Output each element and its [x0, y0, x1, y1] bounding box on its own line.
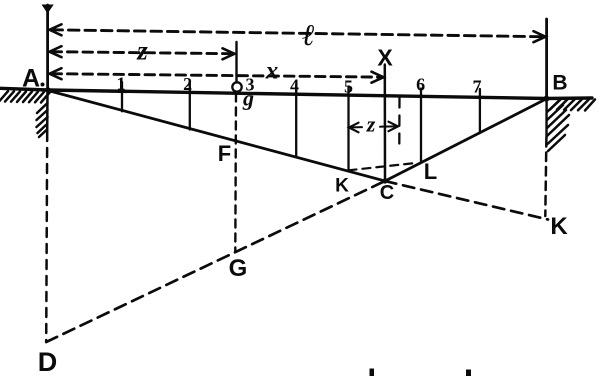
- svg-text:6: 6: [416, 75, 425, 95]
- ground hatching at support B: [547, 99, 595, 151]
- wire: dashed C-K construction line: [385, 181, 548, 220]
- wire: dashed K-L segment: [349, 163, 418, 171]
- svg-text:A: A: [22, 65, 40, 93]
- node C junction: [382, 178, 387, 183]
- influence line left side A-C: [48, 91, 385, 182]
- node A junction: [45, 87, 51, 93]
- node g: small circle at point 3: [232, 82, 241, 91]
- wire: B vertical dashed down to K: [545, 138, 546, 216]
- svg-text:x: x: [265, 58, 279, 85]
- wire: short dashed vertical right of X: [398, 98, 401, 147]
- ordinate at point 2: [189, 83, 191, 130]
- wire: A vertical below beam (solid stub): [46, 90, 49, 132]
- dimension line x (A to X): [52, 74, 381, 77]
- wire: A vertical dashed down to D: [46, 132, 47, 342]
- svg-text:B: B: [552, 71, 567, 94]
- cut-off text remnants at bottom edge: [370, 369, 375, 376]
- svg-text:g: g: [242, 86, 254, 111]
- tick above g (point 3): [235, 42, 237, 82]
- wire: dashed vertical g-F-G: [234, 94, 237, 252]
- reaction line at A (vertical through A): [46, 5, 49, 90]
- svg-text:F: F: [218, 141, 231, 166]
- svg-text:K: K: [335, 176, 349, 197]
- svg-text:X: X: [377, 45, 393, 71]
- svg-text:5: 5: [344, 77, 353, 97]
- svg-text:D: D: [38, 347, 58, 376]
- ordinate at point 6: [420, 89, 422, 162]
- ordinate at point 5: [347, 87, 349, 171]
- dimension line z (A to g): [52, 52, 232, 54]
- wire: X section vertical: [384, 65, 387, 182]
- period after A: [41, 83, 45, 87]
- svg-text:2: 2: [183, 74, 192, 94]
- svg-text:4: 4: [290, 76, 299, 96]
- dimension line l (span A-B): [52, 30, 543, 37]
- svg-text:1: 1: [117, 74, 126, 94]
- svg-text:z: z: [366, 112, 376, 137]
- wire: B vertical above beam: [545, 19, 548, 99]
- node B junction: [543, 96, 549, 102]
- influence line right side C-B: [385, 99, 547, 181]
- wire: ground surface + beam A-B: [0, 88, 592, 98]
- svg-text:z: z: [136, 36, 148, 66]
- ordinate at point 7: [479, 89, 481, 133]
- svg-text:ℓ: ℓ: [302, 19, 315, 52]
- small dimension z near X: [351, 126, 362, 128]
- ordinate at point 1: [121, 82, 123, 111]
- svg-text:G: G: [229, 255, 248, 282]
- svg-text:C: C: [380, 182, 394, 204]
- svg-text:7: 7: [473, 77, 482, 97]
- svg-text:K: K: [550, 213, 568, 240]
- ground hatching at support A: [0, 91, 50, 137]
- svg-text:L: L: [424, 159, 437, 184]
- wire: B vertical solid stub below beam: [545, 99, 547, 138]
- ordinate at point 4: [295, 85, 297, 157]
- arrowhead at top of A vertical: [42, 5, 54, 14]
- wire: dashed D-G-C construction line: [46, 181, 385, 342]
